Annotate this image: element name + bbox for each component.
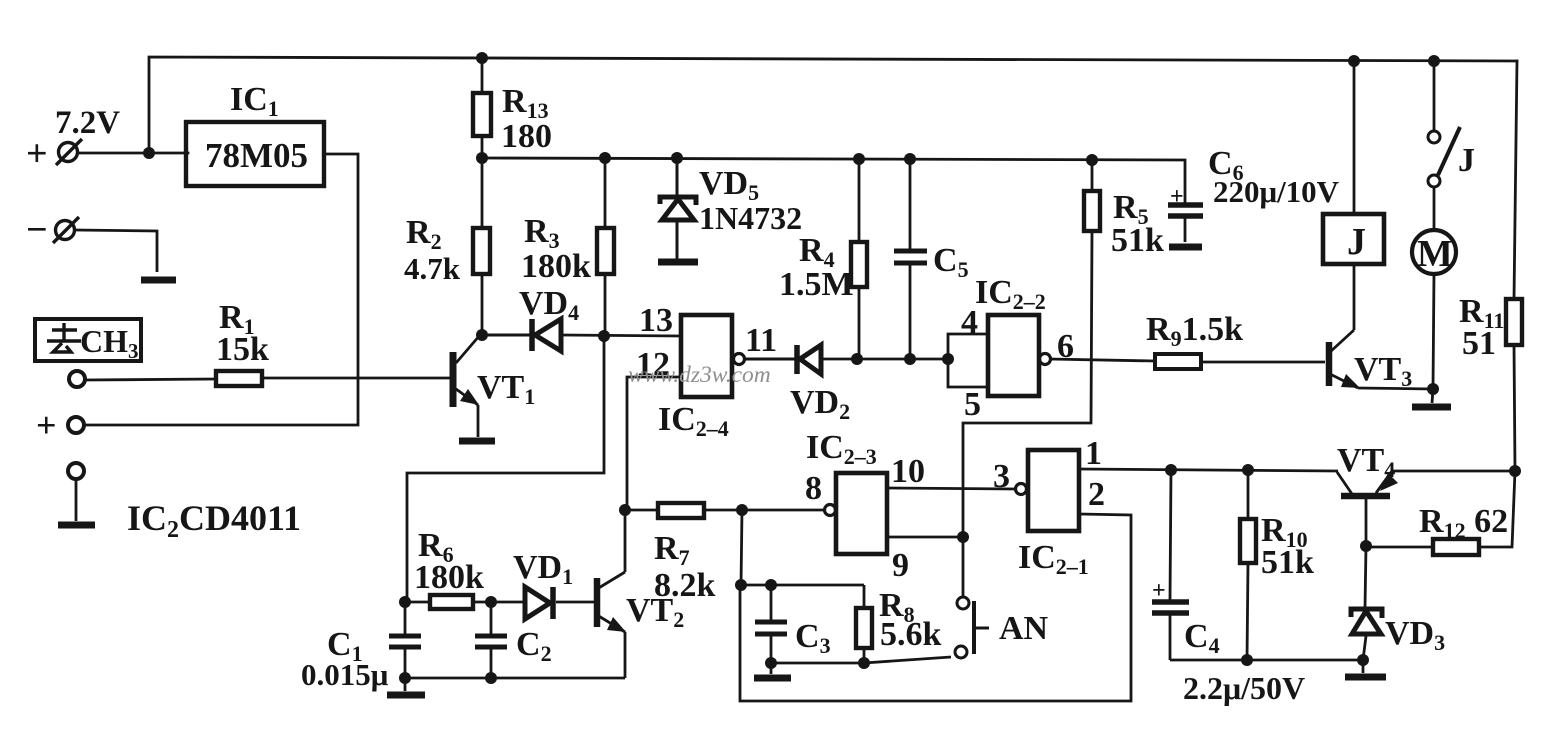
switch J contacts	[1428, 61, 1460, 231]
svg-text:180k: 180k	[414, 559, 484, 596]
svg-text:4.7k: 4.7k	[404, 251, 461, 286]
svg-text:R91.5k: R91.5k	[1146, 311, 1243, 351]
svg-text:8: 8	[805, 470, 822, 507]
wire right edge rail down to R11	[1514, 61, 1517, 299]
node VT3 emitter / motor	[1427, 383, 1439, 395]
resistor R8	[856, 585, 872, 663]
ground (battery minus)	[141, 277, 176, 284]
wire C4 bottom row	[1170, 659, 1363, 662]
svg-text:15k: 15k	[216, 331, 269, 368]
node top rail R13	[476, 52, 488, 64]
resistor R12	[1366, 471, 1515, 555]
motor M	[1412, 230, 1456, 274]
svg-text:3: 3	[993, 458, 1010, 495]
transistor VT1	[453, 335, 480, 437]
svg-text:+: +	[1170, 184, 1184, 210]
wire - terminal to ground	[75, 230, 157, 272]
svg-text:1: 1	[1085, 435, 1102, 472]
resistor R6	[405, 595, 491, 609]
diode VD2	[743, 345, 857, 374]
wire IC2-2 input bracket	[948, 334, 988, 387]
svg-text:−: −	[26, 209, 48, 251]
svg-text:5: 5	[964, 386, 981, 423]
svg-text:1N4732: 1N4732	[699, 200, 802, 236]
terminal gnd	[68, 463, 84, 479]
wire R5 bottom to node9	[963, 231, 1092, 537]
wire + terminal to IC1	[78, 152, 188, 155]
svg-text:J: J	[1458, 142, 1475, 179]
svg-text:13: 13	[639, 302, 673, 339]
capacitor C3	[755, 585, 787, 663]
capacitor C6 electrolytic	[1168, 205, 1203, 242]
box to-CH3	[35, 319, 141, 361]
node + input junction	[143, 147, 155, 159]
resistor R11	[1506, 299, 1522, 471]
switch AN pushbutton	[955, 537, 989, 658]
svg-text:M: M	[1417, 233, 1453, 275]
wire second rail	[482, 158, 1185, 203]
diode VD4	[482, 319, 681, 351]
terminal - (circle with slash)	[53, 217, 79, 243]
resistor R10	[1240, 470, 1256, 660]
ground VT3 emitter	[1432, 389, 1433, 403]
wire gate6 output to VT3 base	[1049, 359, 1155, 361]
resistor R2	[473, 158, 490, 335]
svg-text:51k: 51k	[1261, 544, 1314, 581]
relay coil J	[1323, 214, 1384, 264]
svg-text:AN: AN	[999, 610, 1049, 647]
node rail junctions	[476, 152, 1098, 166]
diode VD3 zener	[1351, 546, 1382, 660]
svg-text:www.dz3w.com: www.dz3w.com	[628, 362, 771, 388]
svg-text:IC2CD4011: IC2CD4011	[127, 498, 301, 543]
ground VT1 emitter	[459, 438, 495, 445]
wire VD2 output row	[857, 358, 948, 361]
node R3 bottom / pin13	[598, 330, 610, 342]
transistor VT2	[597, 510, 625, 678]
terminal + (circle with slash)	[56, 139, 82, 165]
wire top supply rail	[149, 57, 1517, 153]
svg-text:1.5M: 1.5M	[779, 266, 854, 303]
svg-text:9: 9	[892, 547, 909, 584]
node pin1 row junctions	[1165, 464, 1177, 476]
wire VT2 emitter bottom row	[405, 677, 625, 680]
svg-text:2.2μ/50V: 2.2μ/50V	[1183, 670, 1305, 706]
ground VD3	[1362, 660, 1365, 673]
gate IC2-3 (CD4011 NAND)	[836, 473, 887, 554]
resistor R5	[1084, 160, 1100, 231]
resistor R1	[85, 371, 452, 386]
svg-text:51k: 51k	[1111, 222, 1164, 259]
wire IC1 output down to +5V terminal	[84, 154, 358, 425]
resistor R4	[851, 159, 867, 359]
svg-text:0.015μ: 0.015μ	[301, 657, 389, 692]
resistor R7	[625, 503, 826, 518]
resistor R3	[597, 158, 614, 336]
svg-text:+: +	[36, 405, 57, 445]
wire VT4 emitter to right rail	[1391, 470, 1515, 473]
gate IC2-2 (CD4011 NAND)	[988, 315, 1039, 396]
svg-text:180: 180	[501, 118, 552, 155]
wire pin10 to pin3	[887, 488, 1016, 489]
node VT1 collector	[476, 329, 488, 341]
ground C3	[770, 663, 773, 674]
wire pin2 loop to AN row	[740, 514, 1131, 701]
capacitor C5	[894, 159, 927, 359]
transistor VT4	[1337, 471, 1392, 546]
svg-text:180k: 180k	[521, 248, 591, 285]
wire pin12	[627, 377, 681, 510]
capacitor C1	[389, 602, 421, 678]
wire node to C1/R6 (feedback)	[407, 336, 604, 602]
svg-text:+: +	[1152, 578, 1166, 604]
svg-text:220μ/10V: 220μ/10V	[1213, 174, 1340, 209]
svg-text:11: 11	[745, 322, 777, 359]
wire bottom AN row	[771, 657, 951, 663]
wire pin1 row	[1079, 469, 1338, 471]
ground C1	[404, 678, 407, 691]
svg-text:J: J	[1347, 221, 1366, 263]
transistor VT3	[1329, 330, 1433, 389]
svg-text:7.2V: 7.2V	[55, 105, 120, 141]
svg-text:51: 51	[1462, 325, 1496, 362]
svg-text:10: 10	[891, 453, 925, 490]
wire pin9	[887, 536, 963, 539]
diode VD5 zener	[660, 158, 696, 259]
resistor R9	[1155, 354, 1201, 369]
svg-text:2: 2	[1088, 476, 1105, 513]
svg-text:+: +	[26, 133, 48, 175]
resistor R13	[473, 58, 491, 158]
svg-text:5.6k: 5.6k	[880, 616, 942, 653]
gate IC2-4 (CD4011 NAND)	[681, 315, 732, 397]
wire R7 node down and AN row	[741, 510, 864, 585]
terminal CH3 out	[69, 371, 85, 387]
IC1 voltage regulator 78M05	[186, 122, 324, 186]
gate IC2-1 (CD4011 NAND)	[1028, 450, 1079, 531]
svg-text:78M05: 78M05	[205, 136, 308, 175]
capacitor C4 electrolytic	[1152, 470, 1189, 660]
capacitor C2	[475, 602, 507, 678]
diode VD1	[491, 587, 595, 619]
